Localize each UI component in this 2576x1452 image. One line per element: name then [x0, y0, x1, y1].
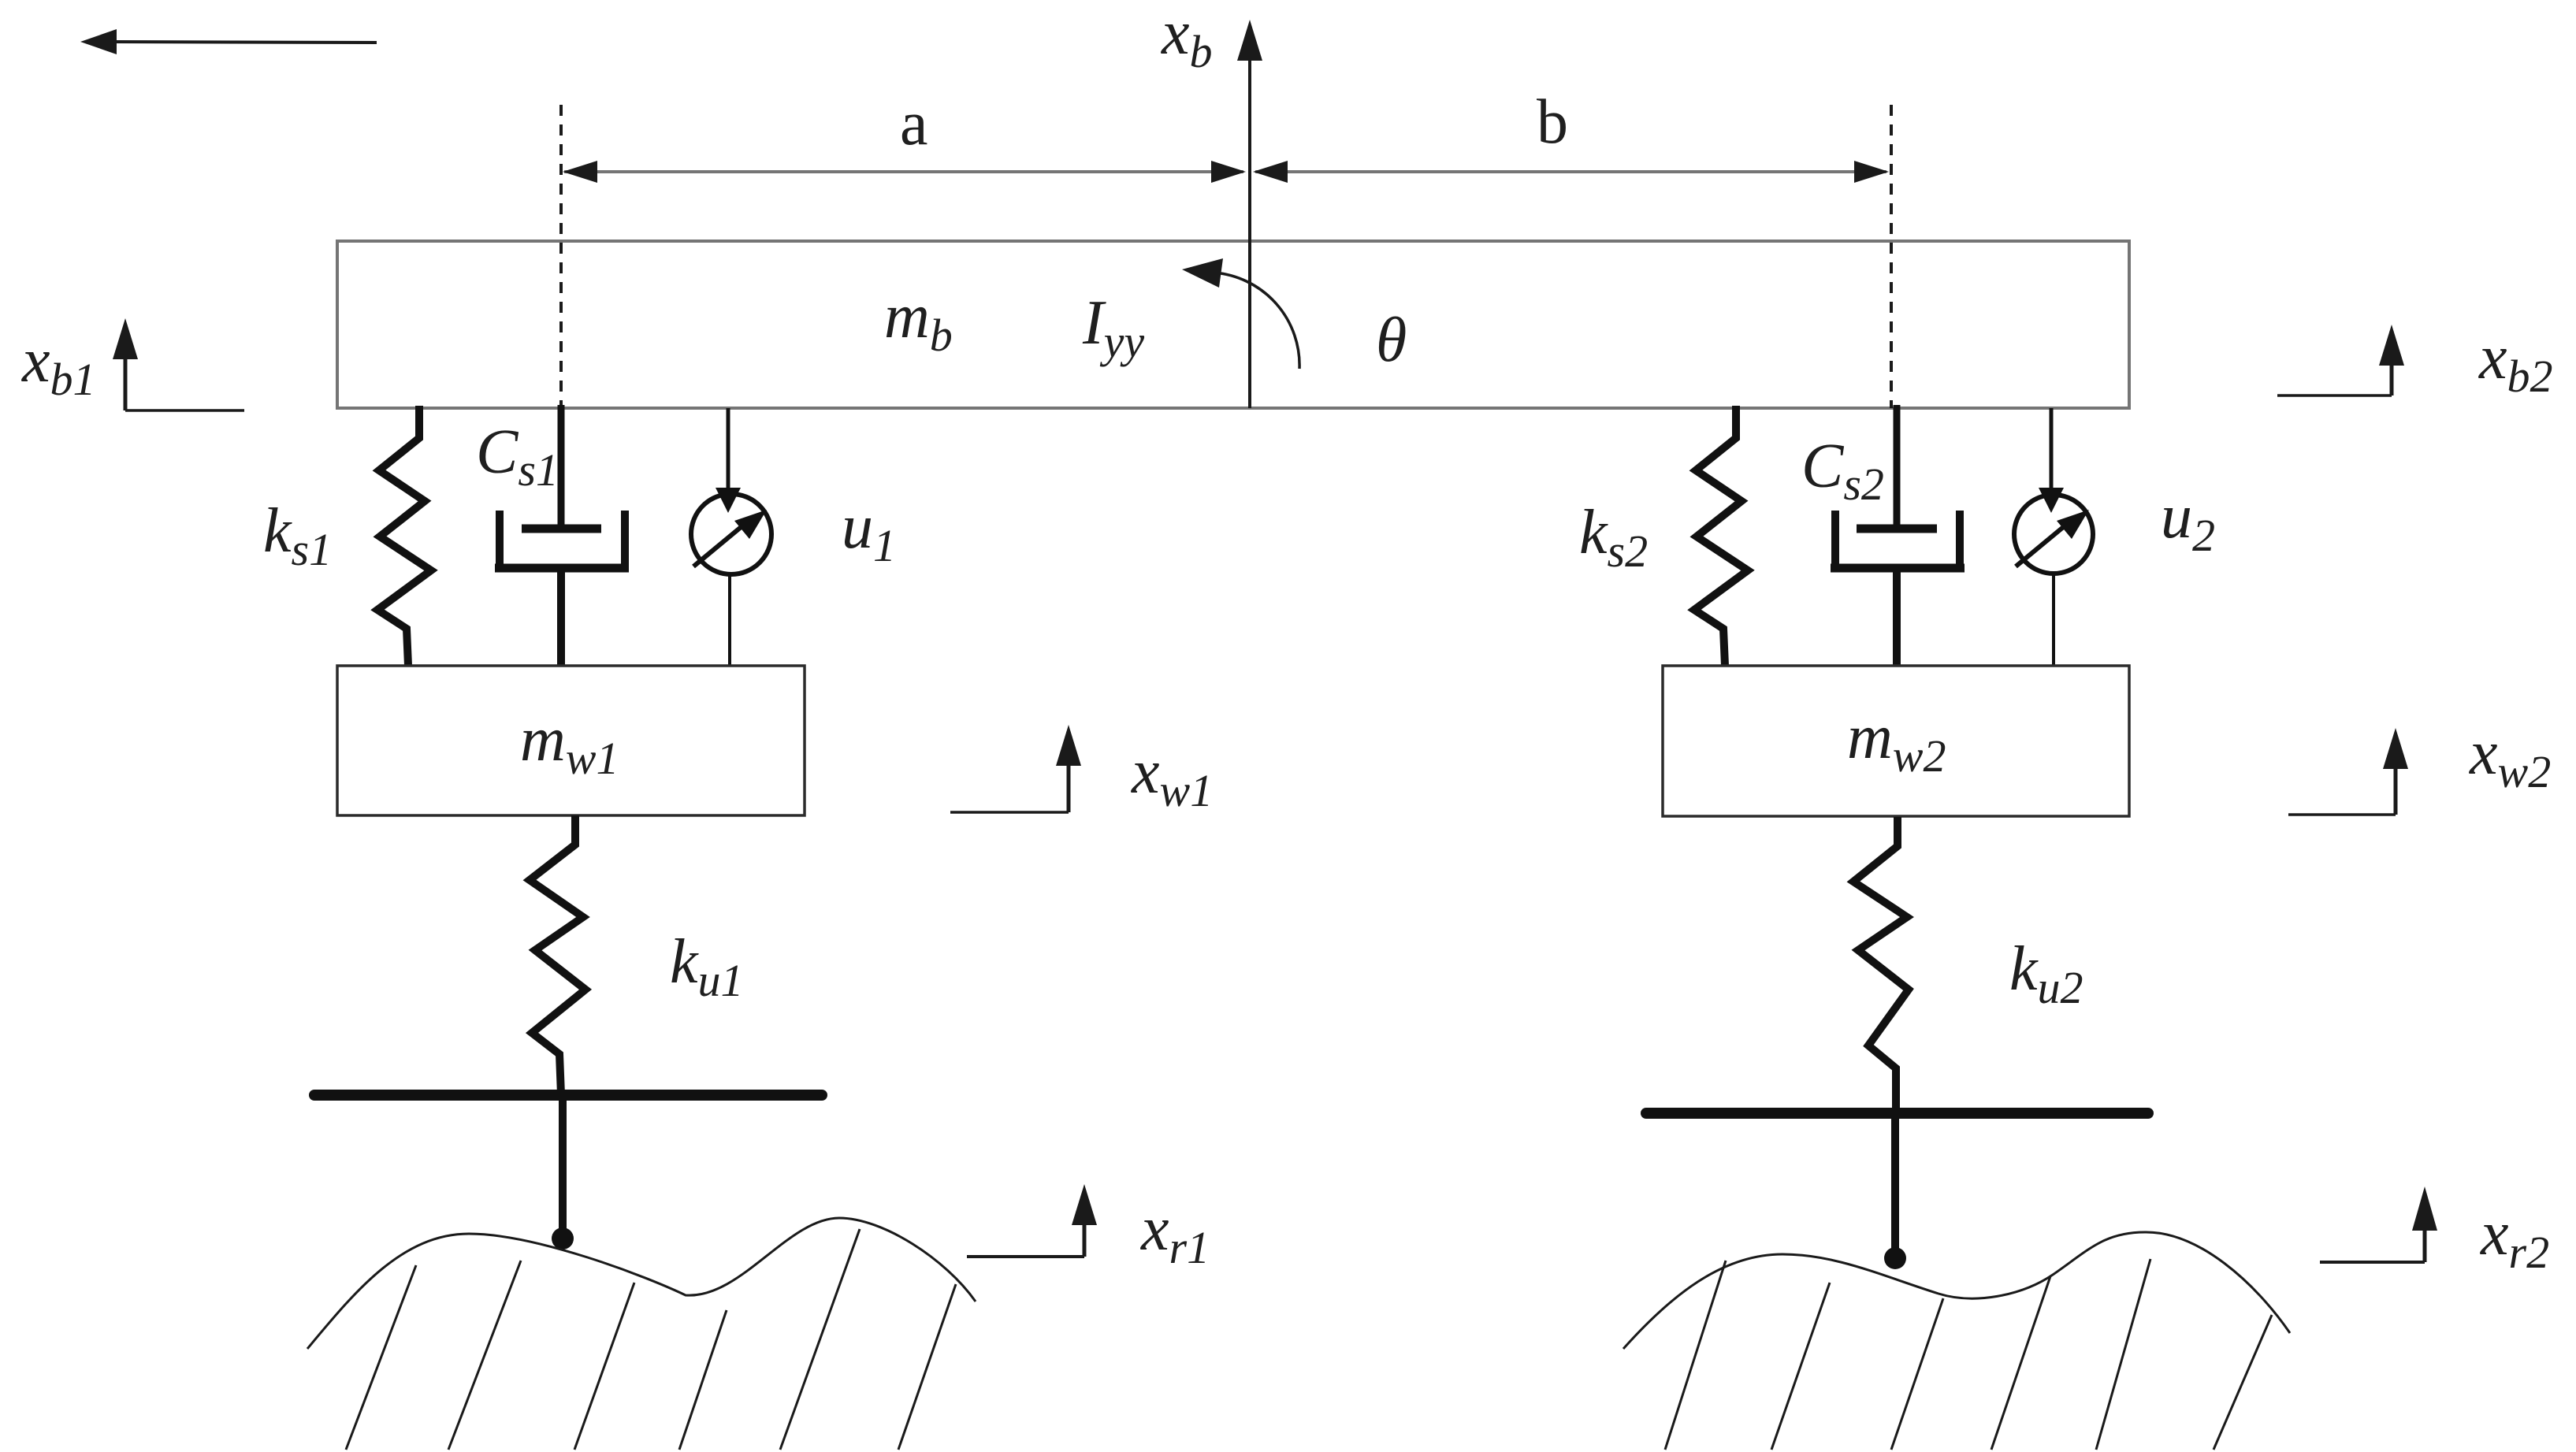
svg-text:a: a	[900, 89, 928, 158]
svg-text:θ: θ	[1376, 306, 1407, 375]
svg-text:b: b	[1537, 87, 1568, 157]
